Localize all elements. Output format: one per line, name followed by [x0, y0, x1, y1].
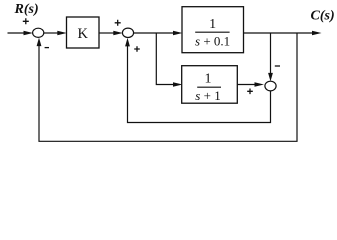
- svg-text:s + 0.1: s + 0.1: [195, 33, 230, 48]
- plus sign at S2 bottom input: [134, 46, 140, 52]
- block K: [67, 17, 100, 48]
- wire S1 to block K: [44, 32, 59, 34]
- wire outer feedback loop to S1: [39, 33, 297, 141]
- plus sign at S3 left input: [247, 89, 253, 95]
- wire S2 to block G1: [134, 32, 175, 34]
- svg-text:1: 1: [209, 17, 216, 32]
- wire input R(s) to summer S1: [8, 32, 26, 34]
- minus sign at S1 bottom input: [45, 47, 49, 49]
- summing junction S1: [33, 28, 44, 37]
- svg-text:s + 1: s + 1: [195, 88, 220, 103]
- wire inner feedback loop S3 to S2: [128, 46, 271, 123]
- svg-text:K: K: [78, 26, 89, 42]
- svg-text:R(s): R(s): [14, 2, 39, 17]
- node branch takeoff after S2: [156, 33, 174, 85]
- block G1 1/(s+0.1): [182, 7, 244, 53]
- wire G2 output to summer S3: [237, 84, 256, 86]
- svg-text:C(s): C(s): [311, 8, 335, 23]
- summing junction S2: [122, 28, 133, 37]
- wire takeoff down to summer S3 top: [270, 33, 272, 75]
- block G2 1/(s+1): [182, 66, 238, 104]
- wire K to summer S2: [99, 32, 115, 34]
- wire G1 output to C(s): [244, 32, 314, 34]
- svg-text:1: 1: [205, 71, 212, 86]
- minus sign at S3 top input: [275, 65, 280, 67]
- summing junction S3: [265, 81, 276, 91]
- plus sign at S2 left input: [115, 20, 121, 26]
- plus sign at S1 input: [23, 18, 29, 24]
